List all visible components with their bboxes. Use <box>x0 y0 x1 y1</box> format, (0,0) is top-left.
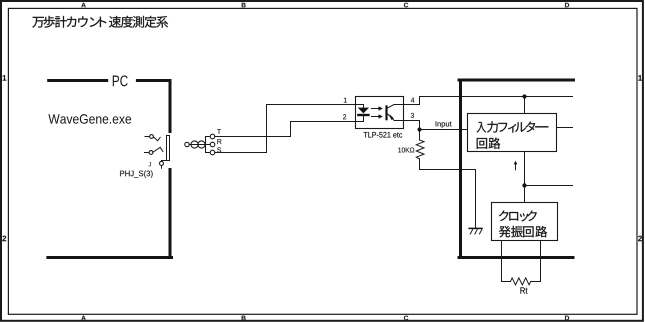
clock oscillator block box <box>492 203 558 241</box>
PC label <box>113 75 128 86</box>
plug P1 ring 2 <box>198 141 205 148</box>
grid label C bottom <box>404 316 408 321</box>
op-coupler U1 box <box>356 97 404 129</box>
feedback arrow <box>514 161 518 170</box>
resistor Rt label <box>520 287 527 293</box>
U1 label TLP-521 etc <box>364 132 403 138</box>
U1 light arrow 1 <box>372 108 379 110</box>
U1 emitter <box>387 113 404 121</box>
pin label 1 <box>344 98 347 103</box>
wire clock box right lead <box>531 241 541 282</box>
input filter text 入力フィルター <box>477 121 549 132</box>
wire clock box left lead <box>502 241 511 282</box>
resistor R1 zigzag <box>416 140 424 159</box>
jack J1 ring contact stub <box>145 152 150 154</box>
grid label B top <box>242 3 246 8</box>
plug P1 shaft line <box>189 144 205 146</box>
jack J1 tip switch contact <box>153 137 160 141</box>
top rail wire <box>420 96 573 98</box>
clock text クロック <box>499 210 537 221</box>
grid label 1 right <box>638 75 642 81</box>
U1 LED triangle <box>358 108 369 114</box>
WaveGene.exe label <box>48 114 131 124</box>
grid label D top <box>565 3 569 8</box>
label R <box>217 139 221 144</box>
wire filter output <box>557 127 573 129</box>
wire T terminal to pin2 <box>215 122 291 137</box>
plug P1 stub R <box>206 144 211 146</box>
label S <box>217 147 221 152</box>
grid label B bottom <box>242 316 246 321</box>
grid label A bottom <box>81 316 85 321</box>
plug P1 stub S <box>206 152 211 154</box>
wire clock rail right <box>525 185 573 187</box>
jack J1 ring spring contact <box>153 147 163 152</box>
grid label D bottom <box>565 316 569 321</box>
PC box bottom edge <box>48 256 172 259</box>
grid label 2 right <box>638 236 642 242</box>
clock text 発振回路 <box>499 226 547 237</box>
node dot clock rail <box>522 183 526 187</box>
plug P1 ring 1 <box>191 141 198 148</box>
plug P1 tip circle <box>185 142 189 146</box>
plug P1 terminal R <box>210 142 215 147</box>
pin label 2 <box>343 114 346 119</box>
wire pin1 horizontal <box>267 105 364 108</box>
wire pin3 down to node <box>404 121 420 141</box>
pin label 4 <box>411 98 415 103</box>
grid label A top <box>81 3 85 8</box>
jack J1 tip contact circle <box>150 135 154 139</box>
jack J1 plug body rectangle <box>167 136 170 161</box>
Input label <box>436 121 452 128</box>
node dot on top rail <box>522 94 526 98</box>
wire S terminal to pin1 <box>215 105 267 153</box>
jack J1 sleeve circle <box>160 161 164 165</box>
plug P1 bracket <box>205 137 207 153</box>
jack J1 label PHJ_S(3) <box>120 170 152 177</box>
plug P1 terminal T <box>210 134 215 139</box>
jack J1 ring contact circle <box>149 151 153 155</box>
plug P1 stub T <box>206 136 211 138</box>
measurement unit box bottom edge <box>459 256 573 259</box>
grid label 1 left <box>3 75 7 81</box>
schematic title 万歩計カウント速度測定系 <box>32 16 168 28</box>
ground chassis symbol <box>468 228 482 234</box>
wire pin2 horizontal <box>291 116 364 121</box>
label T <box>217 129 221 134</box>
jack J1 tip contact stub <box>145 136 150 138</box>
jack J1 sleeve connect <box>162 160 167 163</box>
input filter block box <box>468 114 557 152</box>
measurement unit box top edge <box>459 79 574 82</box>
wire resistor to ground <box>420 159 476 228</box>
PC box top edge right segment and right edge upper <box>137 81 170 132</box>
node junction dot <box>418 128 422 132</box>
U1 LED cathode bar <box>357 114 369 116</box>
measurement unit box left edge <box>459 80 462 258</box>
U1 light arrow 2 <box>372 116 379 118</box>
wire node to Input <box>420 129 468 131</box>
wire top rail down to filter box <box>524 97 526 114</box>
U1 phototransistor base bar <box>385 105 387 120</box>
PC box top edge left segment <box>49 79 107 82</box>
jack J1 sleeve pin stub <box>161 166 163 169</box>
input filter text 回路 <box>477 137 501 148</box>
resistor R1 value 10KΩ <box>398 148 414 153</box>
grid label 2 left <box>2 236 6 242</box>
PC box right edge lower segment <box>169 170 172 258</box>
pin label 3 <box>411 113 414 118</box>
U1 emitter arrowhead <box>389 114 394 120</box>
wire filter bottom down <box>524 152 526 203</box>
wire pin4 to top rail <box>404 97 420 105</box>
grid label C top <box>404 3 408 8</box>
jack J1 designator J <box>148 162 150 166</box>
U1 collector <box>387 105 404 109</box>
resistor Rt zigzag <box>511 278 531 285</box>
plug P1 terminal S <box>210 150 215 155</box>
